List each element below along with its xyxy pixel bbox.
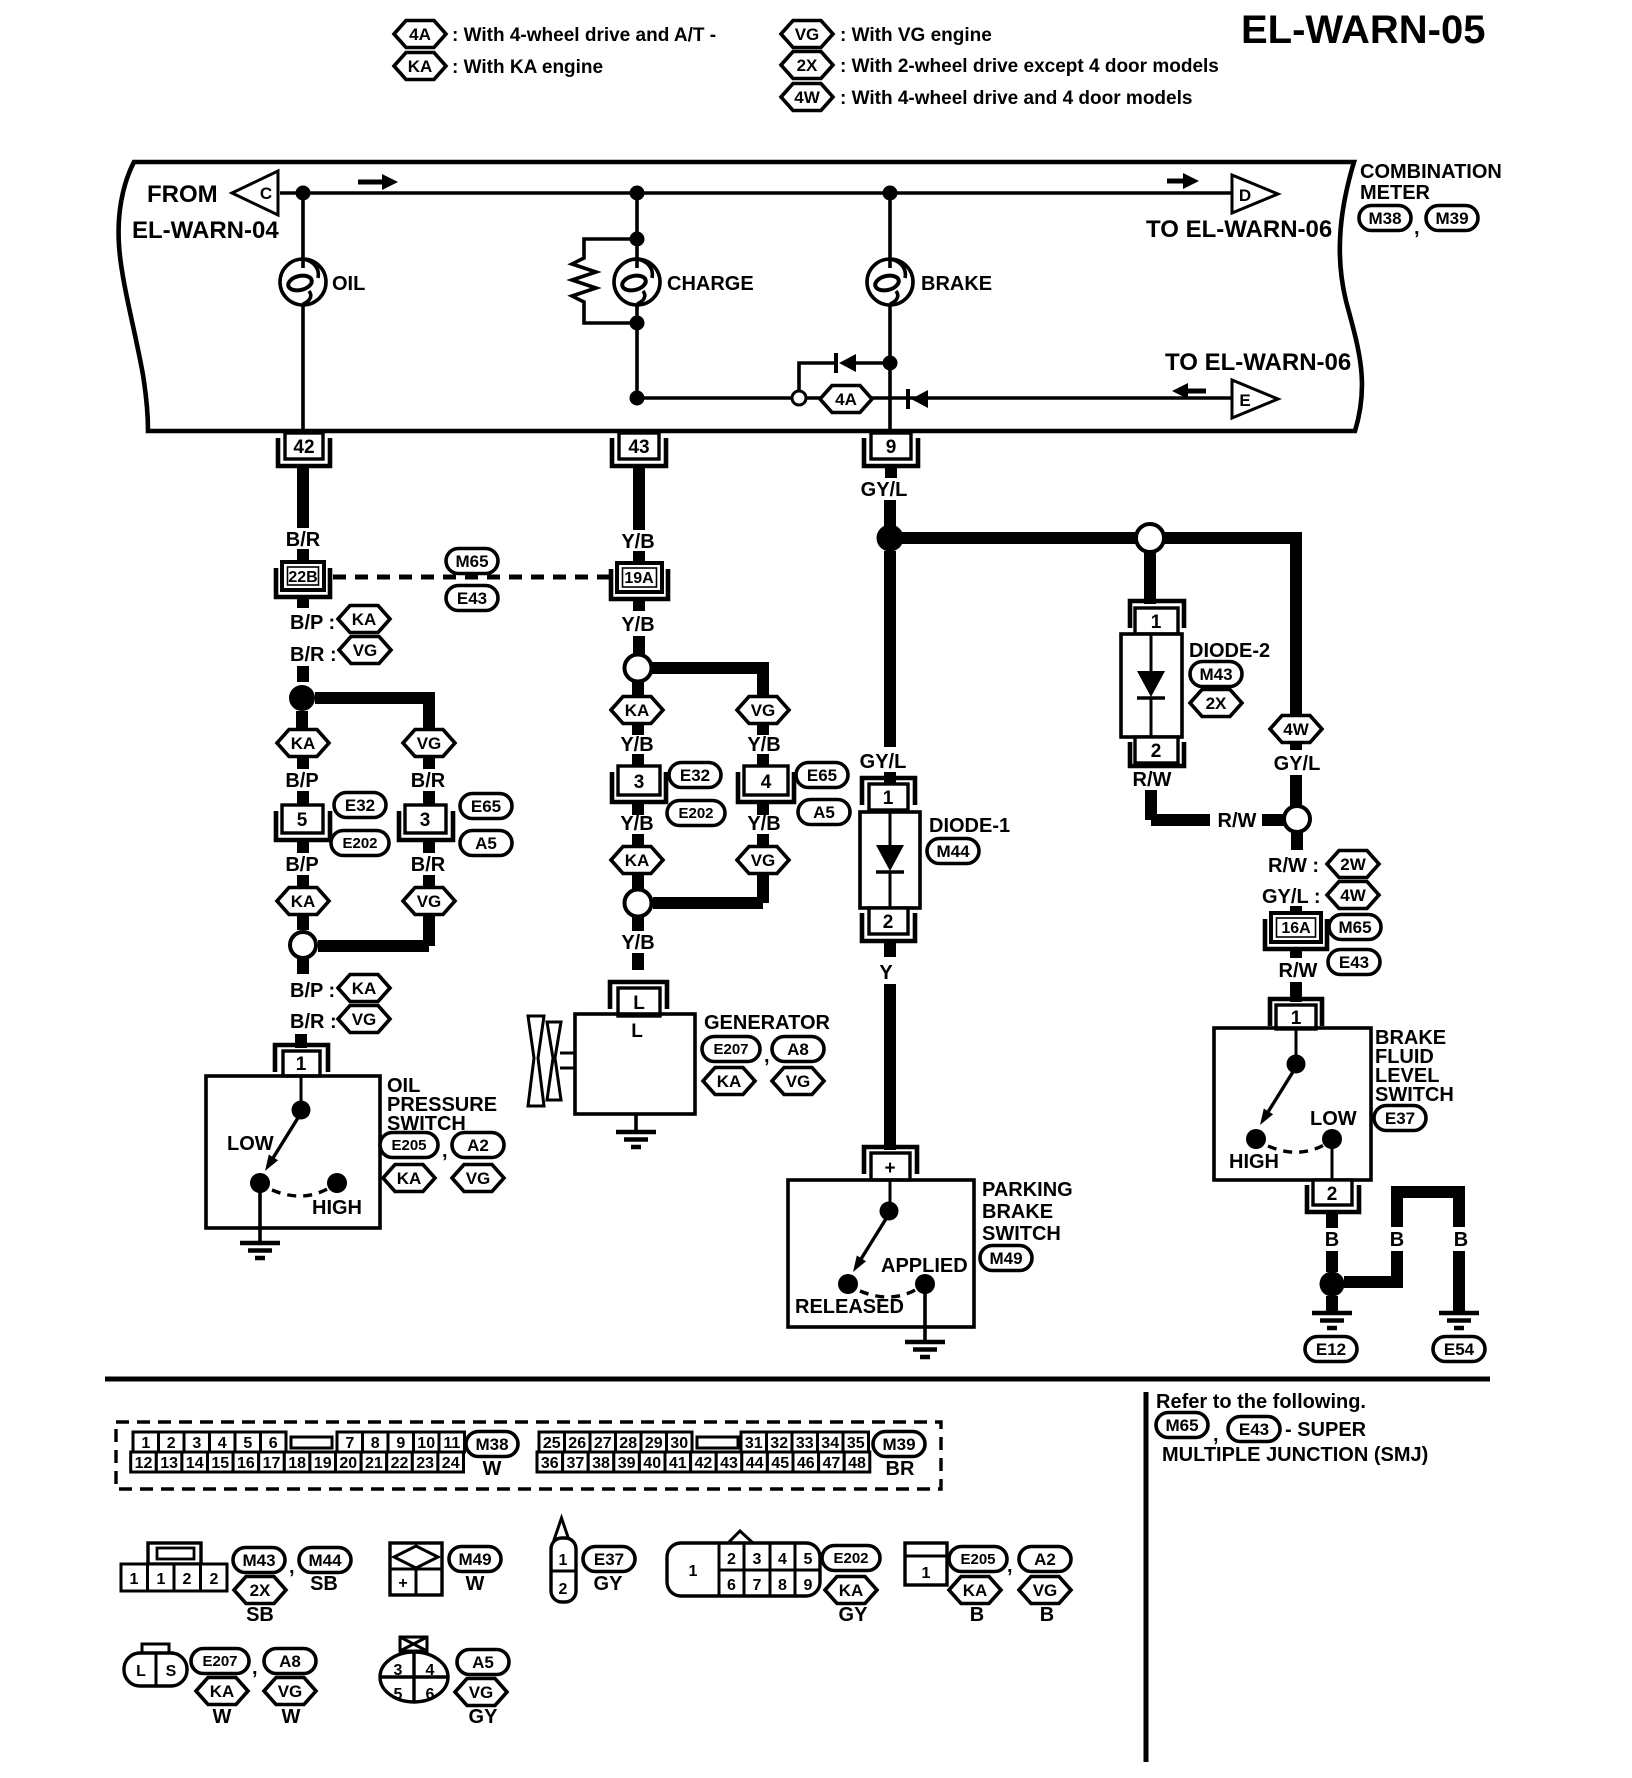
svg-text:19A: 19A [624, 570, 654, 587]
wire stub below KA [297, 757, 309, 769]
svg-text:VG: VG [469, 1683, 494, 1702]
wire stub below dot [296, 711, 308, 730]
wire: pin 1 into BFLS [1295, 1029, 1298, 1055]
svg-text:E207: E207 [202, 1653, 237, 1670]
svg-text:1: 1 [130, 1571, 139, 1588]
svg-text:M65: M65 [1338, 918, 1371, 937]
dashed throw arc (BFLS) [1268, 1145, 1324, 1152]
node C triangle [232, 171, 278, 215]
svg-text:23: 23 [416, 1455, 434, 1472]
option flag KA (charge lower) [611, 847, 663, 874]
connector label E37 (BFLS) [1374, 1106, 1426, 1131]
junction dot (oil) [296, 186, 311, 201]
svg-text:COMBINATION: COMBINATION [1360, 161, 1502, 183]
connector 19A (SMJ) [611, 563, 668, 599]
svg-text:TO EL-WARN-06: TO EL-WARN-06 [1165, 349, 1351, 376]
connector pin 9 [864, 433, 918, 466]
svg-text:E32: E32 [680, 766, 710, 785]
connector label E32 (conn 5) [334, 793, 386, 818]
BFLS pin 1 [1270, 999, 1322, 1029]
connector label A2 (summary) [1019, 1547, 1071, 1572]
svg-text:LOW: LOW [1310, 1108, 1357, 1130]
svg-text:M43: M43 [1199, 665, 1232, 684]
svg-text:,: , [442, 1140, 448, 1162]
svg-text:KA: KA [210, 1682, 235, 1701]
option flag 2W [1327, 851, 1379, 878]
svg-text:GY/L :: GY/L : [1262, 886, 1321, 908]
ground (parking brake switch) [905, 1342, 945, 1357]
LOW contact dot (BFLS) [1322, 1129, 1342, 1149]
option flag KA (generator) [703, 1068, 755, 1095]
svg-text:M65: M65 [455, 552, 488, 571]
svg-text:A5: A5 [475, 834, 497, 853]
svg-text:W: W [483, 1458, 502, 1480]
svg-text:CHARGE: CHARGE [667, 273, 754, 295]
svg-text:27: 27 [594, 1435, 612, 1452]
connector 4 (charge) [738, 766, 794, 802]
svg-text:Refer to the following.: Refer to the following. [1156, 1391, 1366, 1413]
switch arm with arrowhead (to RELEASED) [853, 1214, 889, 1272]
diode-1 body DIODE-1 [860, 812, 920, 908]
svg-text:GY: GY [469, 1706, 499, 1728]
svg-text:4W: 4W [1340, 886, 1366, 905]
connector 3 (charge) [612, 766, 666, 802]
svg-text:VG: VG [751, 851, 776, 870]
svg-text:R/W: R/W [1133, 769, 1172, 791]
wire stub above KA2 (charge) [632, 834, 644, 847]
connector label E205 (summary) [949, 1547, 1007, 1572]
svg-text:VG: VG [417, 892, 442, 911]
svg-text:4: 4 [218, 1435, 227, 1452]
svg-text:RELEASED: RELEASED [795, 1296, 904, 1318]
svg-text:45: 45 [771, 1455, 789, 1472]
svg-text:: With 2-wheel drive except 4: : With 2-wheel drive except 4 door model… [840, 56, 1219, 77]
svg-text:2: 2 [559, 1581, 568, 1598]
option flag VG (charge lower) [737, 847, 789, 874]
diode (upper branch) [836, 353, 890, 373]
wire: lower bus to node E [637, 396, 1232, 400]
wire: LOW contact to pin 2 [1331, 1148, 1334, 1180]
option flag KA (left leg) [277, 730, 329, 757]
connector 5 [276, 805, 330, 840]
ground label E12 [1305, 1337, 1357, 1362]
open circle junction (R/W join) [1284, 806, 1310, 832]
svg-text:1: 1 [1291, 1008, 1302, 1029]
BFLS common dot [1287, 1055, 1306, 1074]
connector label M44 (summary) [299, 1548, 351, 1573]
svg-text:A2: A2 [1034, 1550, 1056, 1569]
option flag VG (legend) [781, 21, 833, 48]
wire stub below circle [297, 959, 309, 974]
connector 16A (SMJ) [1265, 913, 1327, 949]
svg-text:B/P: B/P [285, 854, 318, 876]
brake fluid level switch box [1214, 1028, 1371, 1180]
svg-text:FROM: FROM [147, 181, 218, 208]
wire stub above 19A [633, 551, 645, 563]
svg-text:8: 8 [778, 1577, 787, 1594]
wire stub below conn 5 [297, 840, 309, 853]
wire: top run circle to right corner [1164, 532, 1296, 716]
svg-text:GY/L: GY/L [860, 751, 907, 773]
connector label M39 (summary) [873, 1432, 925, 1457]
svg-text:+: + [884, 1158, 895, 1179]
svg-text:37: 37 [567, 1455, 585, 1472]
wire stub below 19A [633, 599, 645, 611]
wire: branch to VG leg [315, 692, 429, 730]
svg-text:35: 35 [847, 1435, 865, 1452]
connector label E43 (SMJ) [446, 586, 498, 611]
svg-text:8: 8 [371, 1435, 380, 1452]
svg-text:24: 24 [442, 1455, 460, 1472]
svg-text:VG: VG [786, 1072, 811, 1091]
open circle junction on lower bus [792, 391, 806, 405]
svg-text:2X: 2X [250, 1581, 271, 1600]
svg-text:1: 1 [157, 1571, 166, 1588]
svg-text:: With 4-wheel drive and A/T: : With 4-wheel drive and A/T - [452, 25, 716, 46]
option flag 2X (diode-2) [1190, 690, 1242, 717]
option flag KA (charge left leg) [611, 697, 663, 724]
svg-text:11: 11 [443, 1435, 460, 1452]
svg-text:3: 3 [420, 810, 431, 831]
junction dot (resistor bottom) [630, 316, 645, 331]
wire stub below 16A [1290, 949, 1302, 958]
svg-text:: With KA engine: : With KA engine [452, 57, 603, 78]
wire stub below 4W [1290, 743, 1302, 750]
svg-text:E32: E32 [345, 796, 375, 815]
svg-text:34: 34 [821, 1435, 839, 1452]
wire: generator to ground [634, 1114, 638, 1132]
svg-text:B/R :: B/R : [290, 644, 337, 666]
svg-text:DIODE-1: DIODE-1 [929, 815, 1010, 837]
connector label M38 (summary) [466, 1432, 518, 1457]
generator pulley symbol [528, 1016, 575, 1106]
wire stub above pin 1 [295, 1034, 307, 1048]
svg-text:Y/B: Y/B [747, 813, 780, 835]
svg-text:VG: VG [751, 701, 776, 720]
svg-text:36: 36 [541, 1455, 559, 1472]
wire: brake lamp drop [888, 193, 892, 431]
svg-text:SB: SB [310, 1573, 338, 1595]
wire: LOW contact to ground [258, 1192, 262, 1243]
svg-text:L: L [633, 993, 645, 1014]
generator connector drawing (E207/A8) [124, 1644, 187, 1686]
option flag VG (B/R row) [339, 637, 391, 664]
arrow right on top bus [358, 174, 398, 190]
diode connector drawing (M43/M44) [121, 1543, 227, 1591]
svg-text:TO EL-WARN-06: TO EL-WARN-06 [1146, 216, 1332, 243]
svg-text:- SUPER: - SUPER [1285, 1419, 1367, 1441]
svg-text:14: 14 [186, 1455, 204, 1472]
option flag VG (lower B/R row) [338, 1006, 390, 1033]
open circle junction (charge split) [625, 655, 652, 682]
svg-text:47: 47 [823, 1455, 841, 1472]
svg-text:40: 40 [643, 1455, 661, 1472]
junction dot (charge) [630, 186, 645, 201]
svg-text:33: 33 [796, 1435, 814, 1452]
label PARKING BRAKE SWITCH [982, 1179, 1073, 1245]
connector label E37 (summary) [583, 1547, 635, 1572]
wire: VG leg rejoin (charge) [653, 874, 763, 903]
svg-text:M39: M39 [1435, 209, 1468, 228]
connector label M38 [1359, 206, 1411, 231]
wire stub below KA (charge) [632, 724, 644, 735]
svg-text:VG: VG [352, 1010, 377, 1029]
svg-text:4W: 4W [1283, 720, 1309, 739]
ground label E54 [1433, 1337, 1485, 1362]
svg-text:41: 41 [669, 1455, 687, 1472]
option flag 4W (label row) [1327, 882, 1379, 909]
svg-text:B: B [970, 1604, 984, 1626]
connector pin + (parking brake switch) [864, 1147, 917, 1180]
connector label E32 (conn 3 charge) [669, 763, 721, 788]
label COMBINATION METER [1360, 161, 1502, 204]
connector label A2 (switch) [452, 1133, 504, 1158]
connector label E202 (conn 5) [331, 831, 389, 856]
wire stub above circle [633, 636, 645, 654]
svg-text:3: 3 [634, 772, 645, 793]
svg-text:9: 9 [396, 1435, 405, 1452]
diode-2 body DIODE-2 [1121, 634, 1182, 737]
svg-text:13: 13 [160, 1455, 178, 1472]
svg-text:4A: 4A [835, 390, 857, 409]
dashed throw arc [272, 1188, 329, 1196]
connector grid M38 [131, 1432, 465, 1472]
svg-text:BR: BR [886, 1458, 915, 1480]
svg-text:2: 2 [1327, 1184, 1338, 1205]
switch common contact dot [292, 1101, 311, 1120]
svg-text:KA: KA [408, 57, 433, 76]
svg-text:38: 38 [592, 1455, 610, 1472]
label OIL PRESSURE SWITCH [387, 1075, 497, 1135]
connector label M49 (parking) [980, 1246, 1032, 1271]
option flag KA (lower B/P row) [338, 975, 390, 1002]
wire stub above conn 4 [757, 754, 769, 766]
svg-text:B/P: B/P [285, 770, 318, 792]
connector grid M39 [537, 1432, 870, 1472]
wire stub above KA2 [297, 875, 309, 888]
wire stub below conn 3 [423, 840, 435, 853]
svg-text:,: , [252, 1657, 258, 1679]
svg-text:D: D [1239, 186, 1251, 205]
svg-text:E65: E65 [471, 797, 501, 816]
oil pressure switch box [206, 1076, 380, 1228]
svg-text:5: 5 [297, 810, 308, 831]
arrow right before D [1167, 173, 1199, 189]
svg-text:Y/B: Y/B [747, 734, 780, 756]
svg-text:E202: E202 [342, 835, 377, 852]
svg-text:E207: E207 [713, 1041, 748, 1058]
wire stub above pin L [632, 953, 644, 970]
ground E54 [1439, 1313, 1479, 1328]
svg-text:M49: M49 [989, 1249, 1022, 1268]
svg-text:4: 4 [761, 772, 772, 793]
svg-text:B: B [1040, 1604, 1054, 1626]
svg-text:4W: 4W [794, 88, 820, 107]
svg-text:Y/B: Y/B [621, 531, 654, 553]
9-pin connector drawing (E202) [667, 1531, 820, 1596]
svg-text:46: 46 [797, 1455, 815, 1472]
connector label E65 (conn 3 left) [460, 794, 512, 819]
wire stub above junction [297, 666, 309, 682]
wire stub above conn 3 [423, 791, 435, 805]
svg-text:KA: KA [717, 1072, 742, 1091]
wire: APPLIED contact to ground [923, 1293, 927, 1342]
svg-text:2: 2 [727, 1551, 736, 1568]
option flag VG (A2) [1019, 1577, 1071, 1604]
LOW contact dot [250, 1173, 270, 1193]
wire stub below KA2 [297, 915, 309, 930]
svg-text:M49: M49 [458, 1550, 491, 1569]
wire: thick drop below pin 43 [633, 466, 645, 530]
wire stub above VG2 (charge) [757, 834, 769, 847]
connector label M65 (16A) [1329, 915, 1381, 940]
junction dot (B ground join) [1320, 1272, 1345, 1297]
svg-text:4: 4 [778, 1551, 787, 1568]
svg-text:4: 4 [426, 1662, 435, 1679]
round connector drawing (A5) [380, 1637, 448, 1703]
svg-text:26: 26 [568, 1435, 586, 1452]
svg-text:31: 31 [745, 1435, 763, 1452]
svg-text:E205: E205 [391, 1137, 426, 1154]
ground E12 [1312, 1313, 1352, 1328]
wire: top bus inside meter (node C to D) [280, 191, 1232, 195]
svg-text:KA: KA [291, 734, 316, 753]
wire stub below VG [423, 757, 435, 769]
svg-text:VG: VG [353, 641, 378, 660]
svg-text:,: , [1213, 1424, 1219, 1446]
svg-text:B: B [1390, 1229, 1404, 1251]
wire stub below diode-1 [884, 941, 896, 957]
svg-text:M44: M44 [936, 842, 970, 861]
ground (oil pressure switch) [240, 1243, 280, 1258]
wire: branch to VG leg (charge) [652, 662, 763, 697]
svg-text:5: 5 [804, 1551, 813, 1568]
svg-text:GY/L: GY/L [861, 479, 908, 501]
junction dot (oil wire split) [289, 685, 315, 711]
svg-text:6: 6 [426, 1686, 435, 1703]
diode-2 pin 1 [1130, 601, 1184, 634]
1-pin connector drawing (E205) [905, 1543, 947, 1585]
svg-text:EL-WARN-04: EL-WARN-04 [132, 217, 279, 244]
svg-text:A8: A8 [279, 1652, 301, 1671]
svg-text:GENERATOR: GENERATOR [704, 1012, 830, 1034]
wire stub below circle (charge) [632, 682, 644, 697]
svg-text:19: 19 [314, 1455, 332, 1472]
svg-text:Y/B: Y/B [621, 614, 654, 636]
wire stub above dot (B) [1326, 1251, 1338, 1272]
switch arm with arrowhead (to LOW) [265, 1113, 301, 1171]
svg-text:A2: A2 [467, 1136, 489, 1155]
svg-text:E37: E37 [594, 1550, 624, 1569]
arrow left before E [1172, 383, 1206, 399]
svg-text:Y: Y [879, 962, 893, 984]
svg-text:E202: E202 [833, 1550, 868, 1567]
svg-text:6: 6 [727, 1577, 736, 1594]
wire stub below conn 4 [757, 802, 769, 815]
connector 3 (left) [399, 805, 453, 840]
wire: branch up from circle [799, 363, 835, 391]
svg-text:,: , [1414, 217, 1420, 239]
HIGH contact dot (BFLS) [1246, 1129, 1266, 1149]
connector label A8 (generator) [772, 1037, 824, 1062]
option flag VG (right leg lower) [403, 888, 455, 915]
svg-text:R/W: R/W [1218, 810, 1257, 832]
svg-text:2: 2 [167, 1435, 176, 1452]
svg-text:BRAKE: BRAKE [982, 1201, 1053, 1223]
wire stub above BFLS pin 1 [1290, 982, 1302, 1002]
svg-text:,: , [764, 1045, 770, 1067]
svg-text:A5: A5 [813, 803, 835, 822]
diode (lower bus) [908, 389, 928, 409]
svg-text:SB: SB [246, 1604, 274, 1626]
wire: oil lamp drop [301, 193, 305, 431]
wire: diode-2 to circle corner [1151, 790, 1210, 820]
dashed connector summary box [116, 1422, 941, 1489]
svg-text:W: W [213, 1706, 232, 1728]
svg-text:METER: METER [1360, 182, 1431, 204]
svg-text:7: 7 [345, 1435, 354, 1452]
option flag KA (legend) [394, 53, 446, 80]
wire stub below circle (right) [1291, 832, 1303, 850]
option flag VG (generator) [772, 1068, 824, 1095]
svg-text:2X: 2X [797, 56, 818, 75]
svg-text:VG: VG [278, 1682, 303, 1701]
connector label M39 [1426, 206, 1478, 231]
option flag 2X (summary) [234, 1577, 286, 1604]
lamp OIL [280, 258, 326, 305]
option flag VG (right leg) [403, 730, 455, 757]
svg-text:22B: 22B [288, 569, 317, 586]
svg-text:25: 25 [543, 1435, 561, 1452]
svg-text:Y/B: Y/B [621, 932, 654, 954]
svg-text:E43: E43 [1239, 1420, 1269, 1439]
junction dot (upper branch to brake wire) [883, 356, 898, 371]
svg-text:B/R: B/R [411, 770, 446, 792]
svg-text:7: 7 [753, 1577, 762, 1594]
connector pin 43 [612, 433, 666, 466]
connector label M43 (summary) [233, 1548, 285, 1573]
option flag VG (A5) [455, 1679, 507, 1706]
wire stub above conn 5 [297, 791, 309, 805]
connector pin 1 (oil pressure switch) [275, 1045, 328, 1076]
option flag 4W (right drop) [1270, 716, 1322, 743]
svg-text:E43: E43 [1339, 953, 1369, 972]
svg-text:S: S [166, 1663, 177, 1680]
svg-text:: With 4-wheel drive and 4 doo: : With 4-wheel drive and 4 door models [840, 88, 1192, 109]
svg-text:W: W [282, 1706, 301, 1728]
svg-text:4A: 4A [409, 25, 431, 44]
svg-text:5: 5 [394, 1686, 403, 1703]
svg-text:VG: VG [417, 734, 442, 753]
generator box [575, 1014, 695, 1114]
svg-text:6: 6 [269, 1435, 278, 1452]
svg-text:C: C [260, 184, 272, 203]
svg-text:M38: M38 [1368, 209, 1401, 228]
svg-text:E: E [1239, 391, 1250, 410]
svg-text:20: 20 [339, 1455, 357, 1472]
connector pin 42 [278, 433, 330, 466]
svg-text:VG: VG [1033, 1581, 1058, 1600]
wire stub below KA2 (charge) [632, 874, 644, 889]
refer area divider [1144, 1392, 1149, 1762]
svg-text:10: 10 [417, 1435, 435, 1452]
connector label A5 (summary) [457, 1650, 509, 1675]
wire stub above 22B [297, 549, 309, 562]
junction dot (resistor top) [630, 232, 645, 247]
svg-text:32: 32 [770, 1435, 788, 1452]
HIGH contact dot [327, 1173, 347, 1193]
svg-text:E43: E43 [457, 589, 487, 608]
